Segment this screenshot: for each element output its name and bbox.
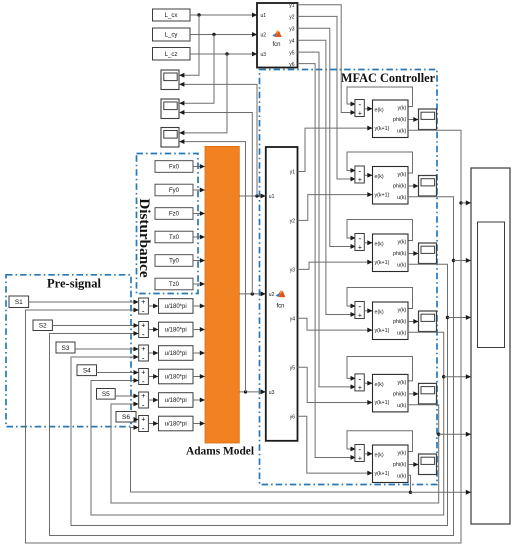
svg-text:y(k): y(k): [397, 450, 406, 456]
svg-text:u2: u2: [269, 292, 275, 298]
svg-text:y2: y2: [289, 15, 295, 21]
svg-text:u/180*pi: u/180*pi: [165, 398, 187, 404]
svg-text:MFAC Controller: MFAC Controller: [341, 71, 436, 85]
svg-text:y(k): y(k): [397, 239, 406, 245]
svg-text:u1: u1: [269, 194, 275, 200]
svg-text:u/180*pi: u/180*pi: [165, 375, 187, 381]
svg-text:y(k+1): y(k+1): [375, 260, 390, 266]
svg-text:+: +: [358, 456, 362, 463]
svg-text:S6: S6: [122, 414, 130, 421]
svg-text:Fz0: Fz0: [169, 212, 180, 218]
svg-text:e(k): e(k): [375, 241, 384, 247]
svg-text:u/180*pi: u/180*pi: [165, 328, 187, 334]
svg-text:-: -: [142, 329, 145, 339]
svg-text:y6: y6: [289, 62, 295, 68]
svg-text:+: +: [358, 111, 362, 118]
svg-text:u/180*pi: u/180*pi: [165, 351, 187, 357]
svg-text:-: -: [358, 373, 361, 383]
svg-text:y2: y2: [290, 219, 296, 225]
svg-text:S4: S4: [83, 368, 91, 375]
svg-text:-: -: [142, 376, 145, 386]
svg-text:L_cz: L_cz: [165, 52, 178, 58]
svg-text:-: -: [358, 444, 361, 454]
svg-text:y5: y5: [289, 50, 295, 56]
svg-text:y(k): y(k): [397, 307, 406, 313]
svg-text:y(k+1): y(k+1): [375, 471, 390, 477]
svg-text:phi(k): phi(k): [393, 184, 406, 190]
svg-text:+: +: [358, 177, 362, 184]
svg-text:Tz0: Tz0: [169, 282, 180, 288]
svg-text:e(k): e(k): [375, 174, 384, 180]
svg-text:L_cy: L_cy: [165, 33, 178, 39]
svg-text:S5: S5: [102, 391, 110, 398]
svg-text:S2: S2: [39, 323, 47, 330]
svg-text:y(k+1): y(k+1): [375, 126, 390, 132]
svg-text:phi(k): phi(k): [393, 462, 406, 468]
svg-text:y(k): y(k): [397, 172, 406, 178]
svg-text:u(k): u(k): [397, 474, 406, 480]
svg-text:Tx0: Tx0: [169, 235, 180, 241]
svg-text:phi(k): phi(k): [393, 251, 406, 257]
svg-text:-: -: [142, 353, 145, 363]
svg-text:+: +: [358, 245, 362, 252]
svg-text:+: +: [358, 385, 362, 392]
svg-text:u3: u3: [269, 390, 275, 396]
svg-text:y3: y3: [289, 27, 295, 33]
svg-text:u1: u1: [261, 13, 267, 19]
svg-text:S3: S3: [62, 345, 70, 352]
svg-text:-: -: [142, 423, 145, 433]
svg-text:y1: y1: [289, 3, 295, 9]
svg-text:y(k): y(k): [397, 105, 406, 111]
svg-text:y3: y3: [290, 268, 296, 274]
svg-text:Adams Model: Adams Model: [186, 446, 254, 458]
svg-text:u(k): u(k): [397, 263, 406, 269]
svg-text:u3: u3: [261, 52, 267, 58]
svg-text:phi(k): phi(k): [393, 117, 406, 123]
svg-text:-: -: [142, 306, 145, 316]
svg-text:u2: u2: [261, 33, 267, 39]
svg-text:phi(k): phi(k): [393, 392, 406, 398]
svg-text:y4: y4: [290, 317, 296, 323]
svg-text:y1: y1: [290, 170, 296, 176]
svg-text:u/180*pi: u/180*pi: [165, 422, 187, 428]
svg-text:fcn: fcn: [272, 42, 280, 48]
svg-text:Fy0: Fy0: [169, 188, 180, 194]
svg-text:-: -: [358, 233, 361, 243]
svg-text:Ty0: Ty0: [169, 259, 179, 265]
svg-text:phi(k): phi(k): [393, 319, 406, 325]
svg-text:u(k): u(k): [397, 331, 406, 337]
svg-text:+: +: [358, 313, 362, 320]
svg-text:u(k): u(k): [397, 129, 406, 135]
svg-text:e(k): e(k): [375, 382, 384, 388]
svg-text:e(k): e(k): [375, 309, 384, 315]
svg-text:y4: y4: [289, 38, 295, 44]
svg-text:y(k): y(k): [397, 380, 406, 386]
svg-text:-: -: [358, 166, 361, 176]
svg-text:Disturbance: Disturbance: [136, 198, 153, 278]
svg-text:Pre-signal: Pre-signal: [47, 276, 101, 290]
svg-text:L_cx: L_cx: [165, 13, 178, 19]
svg-text:y(k+1): y(k+1): [375, 192, 390, 198]
svg-text:S1: S1: [15, 299, 23, 306]
svg-text:-: -: [358, 301, 361, 311]
svg-text:u(k): u(k): [397, 403, 406, 409]
svg-text:-: -: [358, 99, 361, 109]
svg-text:fcn: fcn: [276, 304, 284, 310]
svg-text:u(k): u(k): [397, 195, 406, 201]
svg-text:-: -: [142, 400, 145, 410]
svg-text:y6: y6: [290, 414, 296, 420]
svg-text:e(k): e(k): [375, 452, 384, 458]
svg-text:e(k): e(k): [375, 107, 384, 113]
svg-text:u/180*pi: u/180*pi: [165, 304, 187, 310]
svg-text:y(k+1): y(k+1): [375, 328, 390, 334]
svg-text:y(k+1): y(k+1): [375, 400, 390, 406]
svg-text:Fx0: Fx0: [169, 165, 180, 171]
svg-text:y5: y5: [290, 366, 296, 372]
